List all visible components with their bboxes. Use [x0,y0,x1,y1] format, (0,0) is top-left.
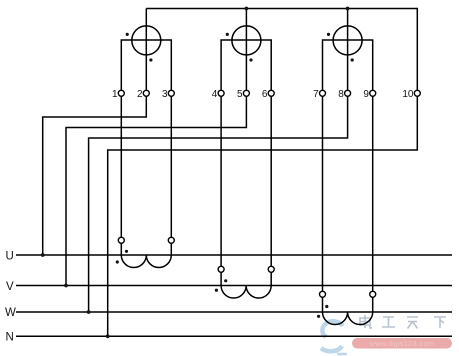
svg-text:V: V [6,281,14,293]
svg-text:9: 9 [363,89,369,100]
svg-text:U: U [6,250,14,262]
svg-text:5: 5 [237,89,243,100]
svg-text:7: 7 [313,89,319,100]
svg-text:1: 1 [112,89,118,100]
svg-text:www.dgjs123.com: www.dgjs123.com [369,339,435,348]
svg-text:10: 10 [402,89,414,100]
svg-text:8: 8 [338,89,344,100]
svg-text:2: 2 [137,89,143,100]
svg-text:3: 3 [162,89,168,100]
svg-text:N: N [6,332,14,344]
svg-text:4: 4 [212,89,218,100]
svg-text:6: 6 [262,89,268,100]
svg-text:W: W [5,307,16,319]
